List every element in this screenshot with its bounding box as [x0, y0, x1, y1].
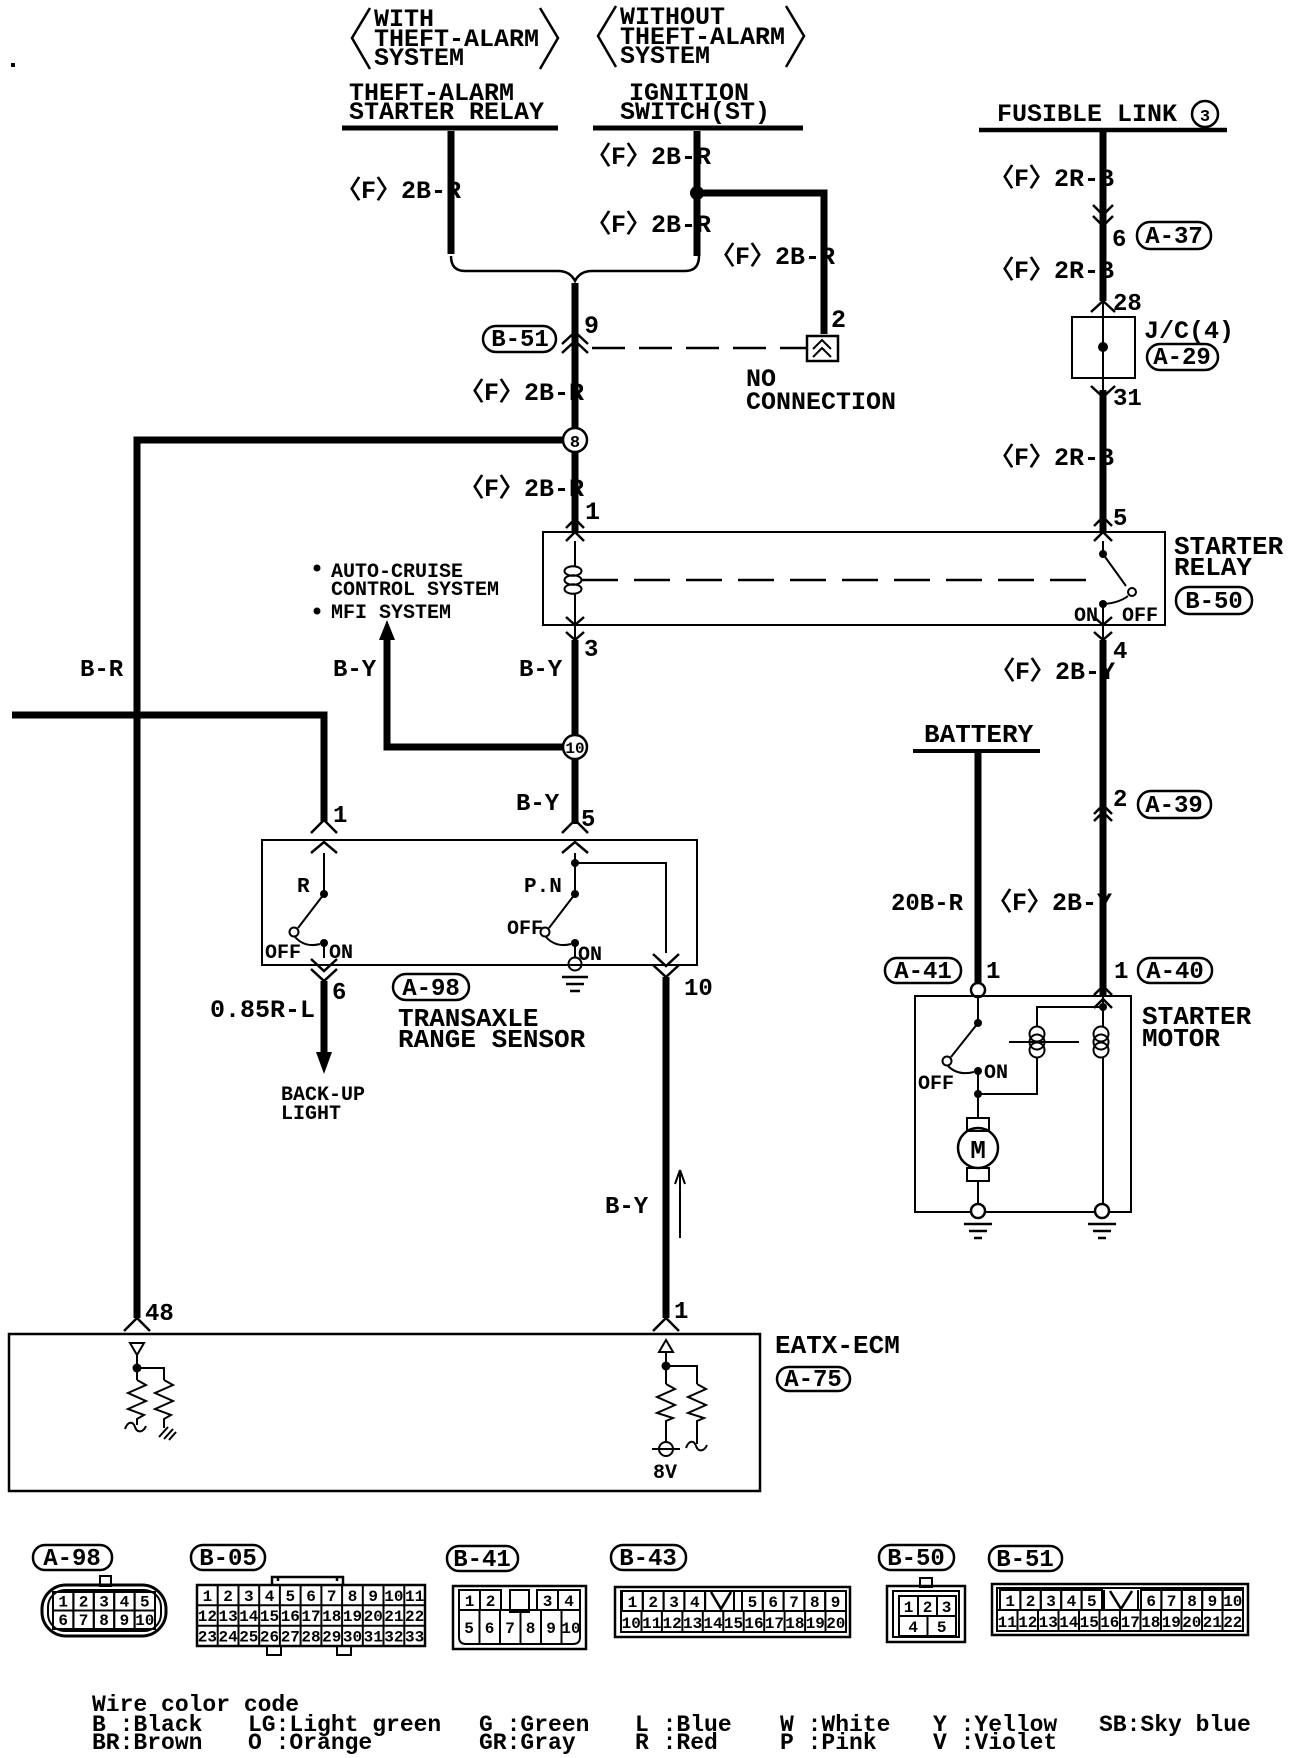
- svg-text:GR:Gray: GR:Gray: [479, 1730, 576, 1756]
- svg-text:14: 14: [703, 1615, 723, 1633]
- svg-text:1: 1: [628, 1594, 638, 1612]
- svg-text:5: 5: [581, 807, 595, 834]
- svg-text:21: 21: [1203, 1614, 1222, 1632]
- svg-text:A-39: A-39: [1145, 793, 1203, 820]
- connector chevrons transaxle pin 10: [653, 954, 679, 977]
- svg-text:11: 11: [405, 1588, 424, 1606]
- svg-text:26: 26: [260, 1629, 279, 1647]
- svg-text:22: 22: [405, 1608, 424, 1626]
- connector pinout B-43: [615, 1587, 850, 1637]
- svg-text:2: 2: [1026, 1593, 1036, 1611]
- svg-text:RELAY: RELAY: [1174, 553, 1252, 583]
- svg-text:8V: 8V: [653, 1462, 677, 1485]
- resistor R2: [155, 1380, 173, 1428]
- note: auto-cruise / MFI system: [314, 561, 500, 625]
- svg-text:17: 17: [1121, 1614, 1140, 1632]
- svg-text:OFF: OFF: [1122, 605, 1158, 628]
- svg-text:18: 18: [322, 1608, 341, 1626]
- svg-text:4: 4: [564, 1593, 574, 1611]
- svg-text:〈F〉2B-R: 〈F〉2B-R: [586, 142, 711, 172]
- svg-text:16: 16: [744, 1615, 763, 1633]
- starter solenoid switch: [918, 997, 1008, 1098]
- svg-text:A-29: A-29: [1153, 345, 1211, 372]
- svg-text:B-05: B-05: [199, 1546, 257, 1573]
- svg-text:1: 1: [674, 1299, 688, 1326]
- wire: MFI branch to node 10: [387, 638, 563, 747]
- svg-text:ON: ON: [984, 1062, 1008, 1085]
- svg-text:14: 14: [239, 1608, 259, 1626]
- svg-text:9: 9: [1208, 1593, 1218, 1611]
- svg-text:17: 17: [301, 1608, 320, 1626]
- svg-text:STARTER RELAY: STARTER RELAY: [349, 98, 544, 127]
- svg-text:B-51: B-51: [491, 327, 549, 354]
- transaxle range sensor box A-98: [262, 840, 697, 965]
- svg-text:11: 11: [642, 1615, 661, 1633]
- svg-text:A-75: A-75: [784, 1367, 842, 1394]
- svg-text:〈F〉2B-R: 〈F〉2B-R: [336, 176, 461, 206]
- connector label A-29: [1147, 344, 1218, 372]
- svg-text:20B-R: 20B-R: [891, 891, 964, 918]
- svg-text:3: 3: [1046, 1593, 1056, 1611]
- svg-text:15: 15: [260, 1608, 279, 1626]
- svg-text:3: 3: [584, 637, 598, 664]
- chevron pin 28: [1091, 301, 1115, 312]
- svg-text:1: 1: [58, 1594, 68, 1612]
- svg-text:RANGE SENSOR: RANGE SENSOR: [398, 1025, 586, 1055]
- svg-text:OFF: OFF: [918, 1073, 954, 1096]
- svg-text:6: 6: [332, 980, 346, 1007]
- svg-text:4: 4: [265, 1588, 275, 1606]
- connector label B-50 (pinout): [879, 1545, 954, 1573]
- svg-text:5: 5: [1113, 506, 1127, 533]
- svg-text:1: 1: [203, 1588, 213, 1606]
- starter motor box: [915, 996, 1131, 1212]
- wire: theft-alarm starter relay output: [448, 131, 455, 254]
- svg-text:4: 4: [690, 1594, 700, 1612]
- svg-text:10: 10: [561, 1620, 580, 1638]
- wire: back-up light feed with arrow: [316, 981, 332, 1074]
- component title: FUSIBLE LINK (3): [979, 100, 1227, 130]
- svg-text:30: 30: [343, 1629, 362, 1647]
- chevron pin 31: [1091, 386, 1115, 397]
- svg-text:SYSTEM: SYSTEM: [374, 44, 464, 73]
- brace joining alternative feeds: [451, 256, 699, 281]
- svg-text:8: 8: [810, 1594, 820, 1612]
- svg-text:10: 10: [1223, 1593, 1242, 1611]
- svg-text:0.85R-L: 0.85R-L: [210, 996, 315, 1025]
- motor M: [958, 1094, 998, 1205]
- svg-text:22: 22: [1223, 1614, 1242, 1632]
- svg-text:13: 13: [683, 1615, 702, 1633]
- arrow to MFI system: [379, 620, 395, 640]
- svg-text:7: 7: [1167, 1593, 1177, 1611]
- EATX-ECM box: [9, 1334, 760, 1491]
- svg-text:O :Orange: O :Orange: [248, 1730, 372, 1756]
- svg-text:18: 18: [1141, 1614, 1160, 1632]
- svg-text:25: 25: [239, 1629, 258, 1647]
- connector chevrons relay pin 1: [566, 519, 584, 541]
- svg-text:CONTROL SYSTEM: CONTROL SYSTEM: [331, 579, 499, 602]
- connector chevrons transaxle pin 5: [562, 820, 588, 853]
- connector chevrons transaxle pin 1: [311, 820, 337, 853]
- svg-text:28: 28: [1113, 291, 1142, 318]
- connector chevrons relay pin 3: [566, 617, 584, 640]
- connector label B-05 (pinout): [191, 1545, 265, 1573]
- svg-text:4: 4: [1113, 639, 1127, 666]
- svg-text:10: 10: [684, 976, 713, 1003]
- svg-text:6: 6: [768, 1594, 778, 1612]
- node 10: [563, 735, 587, 759]
- svg-text:8: 8: [570, 434, 580, 453]
- svg-text:8: 8: [348, 1588, 358, 1606]
- svg-text:10: 10: [135, 1612, 154, 1630]
- coil link line: [1009, 1041, 1079, 1043]
- svg-text:3: 3: [244, 1588, 254, 1606]
- connector pinout B-05: [197, 1577, 425, 1655]
- squiggle termination R1: [125, 1423, 146, 1432]
- svg-text:1: 1: [333, 803, 347, 830]
- svg-text:〈F〉2B-R: 〈F〉2B-R: [710, 242, 835, 272]
- chassis ground hatch R2: [159, 1427, 176, 1440]
- connector label A-75: [777, 1367, 850, 1394]
- relay dashed actuation line: [582, 579, 1088, 582]
- condition note: WITH THEFT-ALARM SYSTEM: [352, 5, 558, 73]
- wire: B-R run (node 8 left and down): [137, 440, 566, 1318]
- svg-text:17: 17: [765, 1615, 784, 1633]
- svg-text:19: 19: [1162, 1614, 1181, 1632]
- svg-text:6: 6: [1146, 1593, 1156, 1611]
- svg-text:9: 9: [831, 1594, 841, 1612]
- dashed line to no-connection: [592, 347, 806, 350]
- svg-text:5: 5: [1087, 1593, 1097, 1611]
- svg-text:9: 9: [368, 1588, 378, 1606]
- svg-text:10: 10: [384, 1588, 403, 1606]
- svg-text:LIGHT: LIGHT: [281, 1103, 341, 1126]
- svg-text:8: 8: [526, 1620, 536, 1638]
- svg-text:3: 3: [1200, 108, 1210, 127]
- svg-text:P :Pink: P :Pink: [780, 1730, 877, 1756]
- wire: transaxle pin 10 down to ECM: [663, 977, 670, 1318]
- svg-text:EATX-ECM: EATX-ECM: [775, 1331, 900, 1361]
- svg-text:16: 16: [281, 1608, 300, 1626]
- svg-text:FUSIBLE LINK: FUSIBLE LINK: [997, 100, 1177, 129]
- svg-text:A-37: A-37: [1145, 224, 1203, 251]
- wire: ignition switch ST output: [694, 131, 701, 256]
- svg-text:2: 2: [486, 1593, 496, 1611]
- svg-text:7: 7: [79, 1612, 89, 1630]
- svg-text:9: 9: [120, 1612, 130, 1630]
- legend: wire color code: [92, 1692, 1251, 1756]
- svg-text:8: 8: [1187, 1593, 1197, 1611]
- connector pinout B-51: [992, 1584, 1248, 1635]
- svg-text:6: 6: [1112, 227, 1126, 254]
- svg-text:A-98: A-98: [43, 1546, 101, 1573]
- connector pinout B-41: [453, 1586, 586, 1649]
- connector chevrons A-39 pin 2: [1094, 805, 1112, 821]
- svg-text:V :Violet: V :Violet: [933, 1730, 1057, 1756]
- svg-text:〈F〉2B-R: 〈F〉2B-R: [586, 210, 711, 240]
- relay coil: [565, 541, 582, 625]
- wire: relay pin 4 down (F)2B-Y: [1102, 625, 1104, 640]
- svg-text:R: R: [297, 876, 310, 899]
- svg-text:1: 1: [465, 1593, 475, 1611]
- junction dot ignition branch: [690, 186, 704, 200]
- svg-text:33: 33: [405, 1629, 424, 1647]
- svg-text:SWITCH(ST): SWITCH(ST): [620, 98, 770, 127]
- svg-text:〈F〉2B-Y: 〈F〉2B-Y: [987, 888, 1112, 918]
- relay U1 box: [543, 532, 1165, 625]
- connector label A-98 (pinout): [33, 1545, 112, 1573]
- svg-text:〈F〉2B-R: 〈F〉2B-R: [459, 474, 584, 504]
- svg-text:23: 23: [198, 1629, 217, 1647]
- svg-text:1: 1: [1005, 1593, 1015, 1611]
- svg-text:27: 27: [281, 1629, 300, 1647]
- svg-text:4: 4: [1067, 1593, 1077, 1611]
- resistor R1: [128, 1380, 146, 1425]
- connector pinout B-50: [887, 1578, 965, 1642]
- svg-text:15: 15: [724, 1615, 743, 1633]
- svg-text:13: 13: [1039, 1614, 1058, 1632]
- connector label A-37: [1137, 222, 1211, 251]
- svg-text:48: 48: [145, 1301, 174, 1328]
- connector label B-51: [483, 326, 556, 354]
- ground terminal left: [964, 1204, 992, 1238]
- svg-text:M: M: [970, 1136, 986, 1166]
- connector label A-41: [885, 958, 961, 986]
- svg-text:B-50: B-50: [1185, 589, 1243, 616]
- svg-text:18: 18: [785, 1615, 804, 1633]
- svg-text:3: 3: [942, 1599, 952, 1617]
- connector label A-40: [1138, 958, 1212, 986]
- svg-text:ON: ON: [1074, 605, 1098, 628]
- svg-text:B-50: B-50: [887, 1546, 945, 1573]
- svg-text:R :Red: R :Red: [635, 1730, 718, 1756]
- svg-text:20: 20: [364, 1608, 383, 1626]
- svg-text:1: 1: [986, 959, 1000, 986]
- connector label B-43 (pinout): [611, 1545, 686, 1573]
- svg-text:13: 13: [218, 1608, 237, 1626]
- svg-text:MFI SYSTEM: MFI SYSTEM: [331, 602, 451, 625]
- connector label B-51 (pinout): [989, 1546, 1062, 1574]
- svg-text:7: 7: [505, 1620, 515, 1638]
- direction arrow up: [675, 1170, 685, 1238]
- connector label B-50: [1176, 587, 1252, 616]
- svg-text:2: 2: [923, 1599, 933, 1617]
- svg-text:19: 19: [806, 1615, 825, 1633]
- svg-text:J/C(4): J/C(4): [1144, 317, 1234, 346]
- ground terminal right: [1088, 1204, 1116, 1238]
- switch P,N (park/neutral): [507, 853, 666, 967]
- svg-text:B-Y: B-Y: [333, 657, 377, 684]
- svg-text:CONNECTION: CONNECTION: [746, 388, 896, 417]
- svg-text:12: 12: [662, 1615, 681, 1633]
- svg-text:1: 1: [904, 1599, 914, 1617]
- svg-text:32: 32: [384, 1629, 403, 1647]
- svg-text:OFF: OFF: [507, 918, 543, 941]
- wire: branch to no-connection: [697, 193, 824, 334]
- relay contact switch: [1074, 541, 1158, 628]
- svg-text:3: 3: [543, 1593, 553, 1611]
- svg-text:B-Y: B-Y: [605, 1194, 649, 1221]
- svg-text:9: 9: [546, 1620, 556, 1638]
- svg-text:5: 5: [748, 1594, 758, 1612]
- svg-text:10: 10: [622, 1615, 641, 1633]
- svg-text:2: 2: [648, 1594, 658, 1612]
- wire node pin48: [133, 1355, 165, 1380]
- connector chevrons pin 9 (B-51): [562, 332, 588, 353]
- svg-text:B-Y: B-Y: [516, 791, 560, 818]
- condition note: WITHOUT THEFT-ALARM SYSTEM: [598, 3, 804, 71]
- svg-text:29: 29: [322, 1629, 341, 1647]
- solenoid hold-in coil on main wire: [1094, 996, 1109, 1205]
- component title: THEFT-ALARM STARTER RELAY: [342, 79, 558, 128]
- svg-text:〈F〉2R-B: 〈F〉2R-B: [989, 164, 1114, 194]
- svg-text:21: 21: [384, 1608, 403, 1626]
- svg-text:15: 15: [1080, 1614, 1099, 1632]
- svg-text:24: 24: [218, 1629, 238, 1647]
- svg-text:28: 28: [301, 1629, 320, 1647]
- svg-text:4: 4: [908, 1619, 918, 1637]
- ground at transaxle P,N: [562, 958, 588, 992]
- svg-text:16: 16: [1100, 1614, 1119, 1632]
- solenoid pull-in coil: [978, 1003, 1107, 1094]
- svg-text:1: 1: [1114, 959, 1128, 986]
- wire: relay pin 3 down to transaxle pin 5: [574, 625, 576, 640]
- no-connection terminal box: [807, 336, 838, 361]
- svg-text:SYSTEM: SYSTEM: [620, 42, 710, 71]
- svg-text:BR:Brown: BR:Brown: [92, 1730, 202, 1756]
- svg-text:1: 1: [585, 498, 600, 527]
- svg-text:9: 9: [584, 312, 599, 341]
- svg-text:B-43: B-43: [619, 1546, 677, 1573]
- switch R (reverse): [265, 853, 353, 965]
- svg-text:MOTOR: MOTOR: [1142, 1024, 1220, 1054]
- svg-text:6: 6: [485, 1620, 495, 1638]
- svg-text:2: 2: [831, 306, 846, 335]
- resistor R3: [657, 1384, 675, 1442]
- svg-text:BATTERY: BATTERY: [924, 720, 1034, 750]
- svg-text:3: 3: [669, 1594, 679, 1612]
- svg-text:〈F〉2R-B: 〈F〉2R-B: [989, 443, 1114, 473]
- svg-text:B-51: B-51: [996, 1547, 1054, 1574]
- svg-text:3: 3: [99, 1594, 109, 1612]
- svg-text:B-R: B-R: [80, 657, 124, 684]
- resistor R4: [688, 1384, 706, 1444]
- connector chevrons transaxle pin 6: [311, 959, 337, 981]
- svg-text:11: 11: [998, 1614, 1017, 1632]
- ECM input terminal pin1: [659, 1340, 673, 1352]
- component title: IGNITION SWITCH(ST): [593, 79, 803, 128]
- wire: J/C to starter relay pin 5: [1100, 390, 1107, 532]
- svg-text:2: 2: [223, 1588, 233, 1606]
- connector label A-39: [1138, 791, 1211, 820]
- svg-text:8: 8: [99, 1612, 109, 1630]
- svg-text:A-41: A-41: [894, 959, 952, 986]
- svg-text:19: 19: [343, 1608, 362, 1626]
- speck dot top-left: [11, 63, 15, 67]
- voltage source 8V: [652, 1442, 680, 1485]
- battery title: [913, 720, 1040, 751]
- svg-text:7: 7: [789, 1594, 799, 1612]
- svg-text:SB:Sky blue: SB:Sky blue: [1099, 1712, 1251, 1738]
- svg-text:2: 2: [1113, 787, 1127, 814]
- svg-text:A-40: A-40: [1146, 959, 1204, 986]
- svg-text:10: 10: [565, 740, 584, 758]
- svg-text:12: 12: [1018, 1614, 1037, 1632]
- chevron ECM pin 1: [653, 1318, 679, 1331]
- svg-text:20: 20: [826, 1615, 845, 1633]
- battery terminal circle: [971, 983, 985, 997]
- svg-text:14: 14: [1059, 1614, 1079, 1632]
- svg-text:〈F〉2B-Y: 〈F〉2B-Y: [990, 657, 1115, 687]
- svg-text:20: 20: [1182, 1614, 1201, 1632]
- svg-text:〈F〉2B-R: 〈F〉2B-R: [459, 378, 584, 408]
- svg-text:31: 31: [1113, 386, 1142, 413]
- node 8: [563, 428, 587, 453]
- svg-text:5: 5: [464, 1620, 474, 1638]
- wire: fusible link feed: [1100, 131, 1107, 301]
- svg-text:4: 4: [120, 1594, 130, 1612]
- svg-text:A-98: A-98: [402, 976, 460, 1003]
- svg-text:5: 5: [140, 1594, 150, 1612]
- svg-text:OFF: OFF: [265, 942, 301, 965]
- svg-text:B-Y: B-Y: [519, 657, 563, 684]
- svg-text:2: 2: [79, 1594, 89, 1612]
- connector chevrons relay pin 5: [1094, 517, 1112, 541]
- svg-text:6: 6: [58, 1612, 68, 1630]
- wire node pin1: [662, 1352, 698, 1384]
- connector chevrons A-40 pin 1: [1094, 986, 1112, 1008]
- connector chevrons A-37 pin 6: [1093, 205, 1113, 226]
- ECM input terminal pin48: [130, 1343, 144, 1355]
- connector pinout A-98: [42, 1576, 166, 1636]
- svg-text:7: 7: [327, 1588, 337, 1606]
- svg-text:P.N: P.N: [524, 876, 562, 899]
- svg-text:〈F〉2R-B: 〈F〉2R-B: [989, 256, 1114, 286]
- junction block J/C(4): [1072, 301, 1135, 390]
- svg-text:31: 31: [364, 1629, 383, 1647]
- svg-text:12: 12: [198, 1608, 217, 1626]
- connector label A-98: [393, 974, 469, 1003]
- squiggle termination R4: [686, 1442, 707, 1451]
- wire: common feed down to relay pin 1: [572, 283, 579, 532]
- svg-text:5: 5: [285, 1588, 295, 1606]
- wire: battery feed 20B-R: [975, 753, 982, 984]
- svg-text:5: 5: [937, 1619, 947, 1637]
- svg-text:6: 6: [306, 1588, 316, 1606]
- wire: horizontal feed to transaxle pin 1: [12, 715, 324, 822]
- connector chevrons relay pin 4: [1094, 617, 1112, 640]
- svg-text:B-41: B-41: [453, 1547, 511, 1574]
- connector label B-41 (pinout): [447, 1546, 518, 1574]
- chevron ECM pin 48: [124, 1318, 150, 1331]
